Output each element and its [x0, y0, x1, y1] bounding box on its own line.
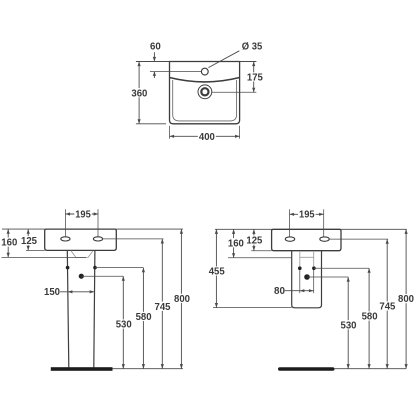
svg-text:125: 125: [246, 235, 262, 247]
svg-text:160: 160: [1, 237, 17, 249]
svg-text:580: 580: [362, 311, 378, 323]
svg-text:60: 60: [150, 40, 161, 52]
svg-text:175: 175: [247, 72, 263, 84]
svg-text:160: 160: [228, 237, 244, 249]
svg-text:360: 360: [131, 87, 147, 99]
svg-text:195: 195: [75, 209, 91, 221]
svg-text:400: 400: [199, 131, 215, 143]
svg-text:580: 580: [136, 311, 152, 323]
svg-text:745: 745: [155, 301, 171, 313]
svg-text:455: 455: [209, 266, 225, 278]
svg-text:125: 125: [21, 235, 37, 247]
svg-text:530: 530: [341, 319, 357, 331]
svg-text:745: 745: [379, 301, 395, 313]
svg-text:530: 530: [116, 319, 132, 331]
svg-text:195: 195: [299, 209, 315, 221]
svg-text:80: 80: [274, 285, 285, 297]
svg-text:150: 150: [44, 286, 60, 298]
svg-text:800: 800: [398, 293, 414, 305]
svg-text:Ø 35: Ø 35: [242, 40, 263, 52]
svg-text:800: 800: [174, 293, 190, 305]
